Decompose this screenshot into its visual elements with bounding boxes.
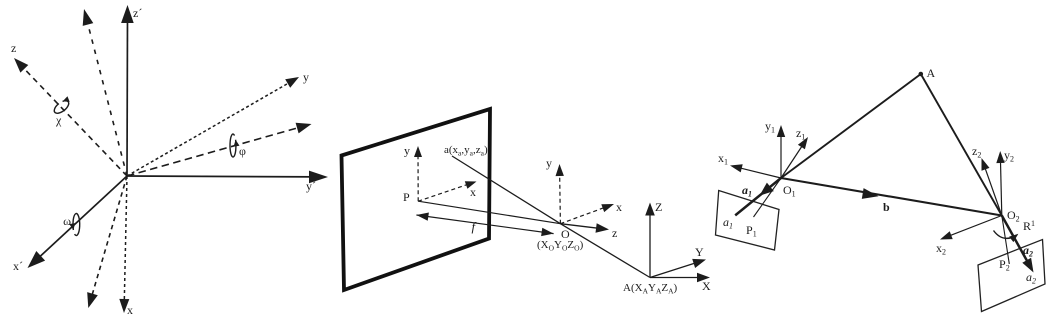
svg-text:χ: χ	[55, 113, 62, 127]
svg-text:y: y	[404, 144, 410, 158]
svg-text:z: z	[612, 226, 617, 240]
svg-text:X: X	[702, 279, 711, 293]
svg-text:P: P	[403, 190, 410, 204]
svg-text:b: b	[883, 200, 890, 214]
svg-text:x: x	[616, 200, 622, 214]
svg-text:Z: Z	[655, 200, 662, 214]
svg-text:ω: ω	[63, 214, 71, 228]
svg-text:y´: y´	[306, 179, 316, 193]
svg-text:x: x	[127, 303, 133, 317]
svg-text:x: x	[470, 185, 476, 199]
svg-text:y: y	[546, 156, 552, 170]
svg-text:z´: z´	[133, 6, 142, 20]
svg-text:z: z	[11, 41, 16, 55]
svg-text:Y: Y	[695, 245, 704, 259]
svg-text:x´: x´	[13, 259, 23, 273]
svg-text:φ: φ	[239, 144, 246, 158]
svg-text:y: y	[303, 70, 309, 84]
svg-text:A: A	[927, 66, 936, 80]
